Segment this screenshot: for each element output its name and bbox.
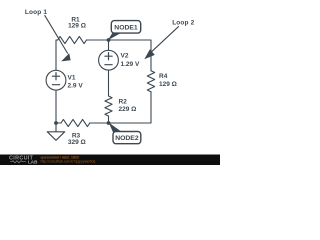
wire V2 to R2 [108, 70, 110, 96]
svg-text:R2: R2 [119, 98, 128, 105]
resistor R1 [58, 36, 87, 43]
wire R2 to bottom [108, 116, 110, 123]
wire right-bottom segment [109, 92, 152, 123]
svg-text:V2: V2 [121, 52, 129, 59]
wire node1 stub [108, 40, 110, 50]
loop 2 arrowhead [144, 49, 155, 59]
ground [47, 123, 64, 140]
svg-text:129 Ω: 129 Ω [68, 23, 86, 30]
node NODE1 callout tail [108, 33, 121, 40]
svg-text:Loop 2: Loop 2 [172, 19, 194, 26]
watermark bar [0, 155, 220, 166]
svg-text:R4: R4 [159, 73, 168, 80]
loop 2 arrow line [152, 26, 179, 52]
wire top-right segment [87, 40, 152, 71]
svg-text:quesonmol / lab2_1833: quesonmol / lab2_1833 [41, 155, 79, 159]
svg-text:NODE2: NODE2 [115, 135, 139, 142]
loop 1 arrow line [45, 15, 68, 53]
junction dot ground [54, 121, 58, 125]
resistor R2 [105, 96, 112, 116]
wire bottom-left stub [56, 122, 61, 124]
V2 plus sign [105, 53, 112, 60]
svg-text:329 Ω: 329 Ω [68, 139, 86, 146]
svg-text:129 Ω: 129 Ω [159, 81, 177, 88]
svg-text:V1: V1 [68, 75, 76, 82]
node NODE1 callout box [111, 21, 140, 33]
svg-text:htlp://circuitlab.com/c7qqpyya: htlp://circuitlab.com/c7qqpyyaar5dq [41, 160, 96, 164]
resistor R4 [147, 71, 154, 92]
V1 plus sign [52, 73, 59, 80]
junction dot node2 [107, 121, 111, 125]
V2 minus sign [105, 64, 112, 66]
loop 1 arrowhead [61, 53, 70, 61]
V1 minus sign [52, 84, 59, 86]
svg-text:229 Ω: 229 Ω [119, 106, 137, 113]
voltage source V1 circle [46, 70, 66, 90]
wire R3 to node2 [90, 122, 109, 124]
voltage source V2 circle [99, 50, 119, 70]
junction dot node1 [107, 38, 111, 42]
svg-text:2.9 V: 2.9 V [68, 82, 84, 89]
resistor R3 [61, 119, 90, 126]
node NODE2 callout box [113, 132, 141, 144]
svg-text:NODE1: NODE1 [114, 24, 138, 31]
svg-text:Loop 1: Loop 1 [25, 9, 47, 16]
node NODE2 callout tail [109, 122, 122, 132]
wire top-left segment [56, 40, 58, 70]
svg-text:1.29 V: 1.29 V [121, 61, 140, 68]
watermark logo zigzag [10, 161, 26, 163]
svg-text:LAB: LAB [28, 160, 38, 165]
wire V1 to ground junction [55, 90, 57, 123]
